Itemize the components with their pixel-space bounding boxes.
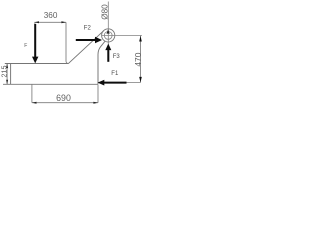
svg-text:Ø80: Ø80 [101,4,110,20]
svg-text:360: 360 [44,11,58,20]
svg-text:F3: F3 [113,54,121,60]
svg-text:F2: F2 [84,26,92,32]
svg-text:215: 215 [0,66,8,78]
svg-text:F: F [24,43,27,49]
svg-text:F1: F1 [111,71,119,77]
svg-text:690: 690 [56,93,71,103]
svg-text:470: 470 [133,52,143,66]
